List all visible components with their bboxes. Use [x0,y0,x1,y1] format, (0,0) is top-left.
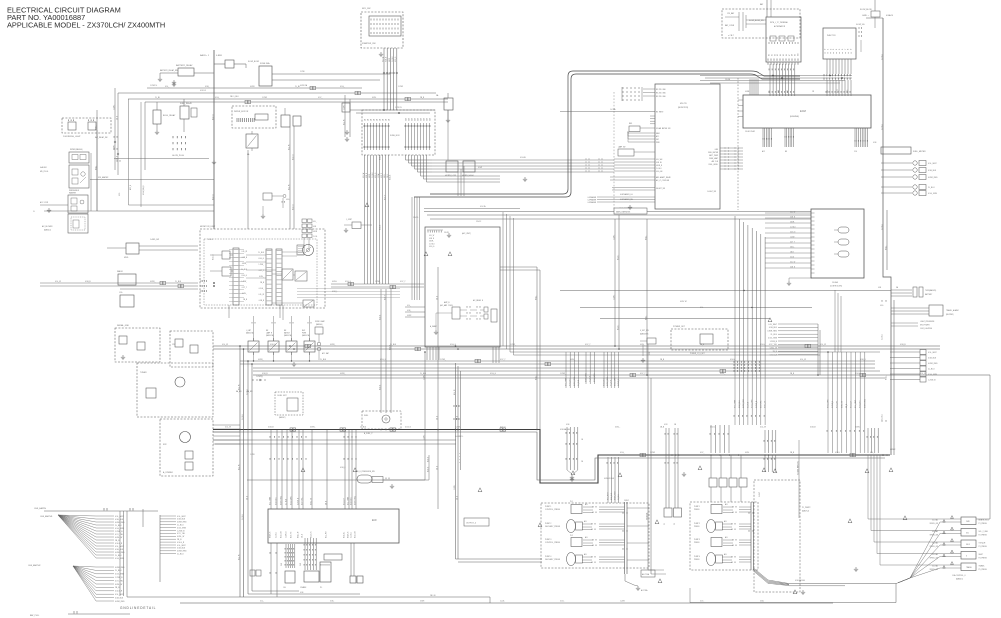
bus y361 [240,360,875,362]
svg-text:LIGHT_PRESSURE: LIGHT_PRESSURE [920,321,934,323]
svg-text:6-SPEAKER_LH: 6-SPEAKER_LH [620,193,633,196]
svg-text:2L_BLU: 2L_BLU [656,168,661,170]
svg-text:0.5G_GR: 0.5G_GR [355,530,357,538]
svg-text:0.5L_W: 0.5L_W [820,344,826,346]
radio box 2 [120,295,134,307]
wire riser x345 [344,95,346,137]
svg-text:2E: 2E [581,461,583,463]
comp x345 [342,103,350,112]
svg-text:0.5Y_: 0.5Y_ [700,601,704,603]
pump2 vertical feed x799 [798,440,800,518]
svg-text:B7: B7 [789,54,791,56]
svg-text:0.5L_WHT: 0.5L_WHT [735,400,737,408]
wire riser x294 [293,126,295,229]
svg-text:PL: PL [320,587,322,589]
svg-text:0.85B: 0.85B [745,91,749,93]
injector connector bar [824,74,850,76]
svg-text:0.85R_RED: 0.85R_RED [767,331,777,333]
svg-text:1.25W_B: 1.25W_B [115,531,123,533]
svg-text:HORN_LOW: HORN_LOW [445,175,456,177]
svg-text:RX-TXD_GND: RX-TXD_GND [656,96,667,98]
svg-text:SELECT_SW: SELECT_SW [656,188,666,190]
svg-text:SW_POWER: SW_POWER [920,325,930,327]
ECM pin cluster B [785,128,794,147]
svg-text:2L_BLU: 2L_BLU [590,375,592,382]
battery relay K1 [178,68,194,76]
ECF top pin verticals [270,430,272,509]
svg-text:PUMP 1: PUMP 1 [694,506,700,508]
svg-text:CHS_EARTH: CHS_EARTH [34,507,47,510]
svg-text:0.5B_BLK: 0.5B_BLK [115,519,124,521]
label box on wire [614,208,647,214]
fusible link F0 [225,60,234,68]
svg-text:RX-TXD_GND: RX-TXD_GND [656,92,667,94]
relay RL2 fuel [180,106,189,119]
svg-text:1.25W_: 1.25W_ [455,427,461,429]
svg-text:0.5G_G: 0.5G_G [375,172,377,178]
bottom rail y597 [127,596,490,598]
ECF top ticks [270,436,306,438]
svg-text:CHS_EARTH2: CHS_EARTH2 [28,564,40,567]
ICX box [425,227,500,347]
svg-text:0.5LG_R: 0.5LG_R [344,497,346,505]
svg-text:0 BACK: 0 BACK [886,14,894,17]
svg-text:SLOW_BLOW: SLOW_BLOW [860,9,872,11]
svg-text:0.5G_G: 0.5G_G [292,204,294,210]
svg-text:2L_B: 2L_B [837,89,839,93]
svg-text:0.85L_: 0.85L_ [615,427,620,429]
triangle markers scattered [424,252,428,256]
svg-text:MONITOR_UNIT: MONITOR_UNIT [200,226,216,228]
svg-text:1.25W_B: 1.25W_B [286,531,288,538]
ICX left stubs [405,306,425,308]
fuse 5A mid [444,98,453,110]
svg-text:FUEL_LEVEL: FUEL_LEVEL [709,164,719,166]
svg-text:2L_BLU: 2L_BLU [177,525,184,527]
bus y375 [253,374,990,376]
wire riser x290 [289,127,291,229]
svg-text:0.85L_W: 0.85L_W [770,348,777,350]
svg-text:CN-1D: CN-1D [413,217,419,219]
svg-text:0.5B_B: 0.5B_B [900,344,906,346]
wire left drop x115 [114,88,116,170]
rail link x490 [489,597,491,603]
svg-text:0.85R_RED: 0.85R_RED [928,363,938,365]
ICX bottom bundle right [493,347,499,363]
svg-text:0.5B_B: 0.5B_B [389,175,391,180]
svg-text:0.5L_W: 0.5L_W [382,56,384,62]
svg-text:BLDG_RELAY: BLDG_RELAY [163,114,176,117]
ECF box [268,509,399,543]
monitor inner dashed box [204,239,317,305]
relay RL1 bldg [153,110,161,124]
monitor drops below [228,305,230,318]
connector hatch cn-h [586,158,589,160]
svg-text:0.5L_W: 0.5L_W [790,211,796,213]
pump2 P4 [707,553,716,566]
svg-text:SOL: SOL [966,533,969,535]
svg-text:0.5Y_Y: 0.5Y_Y [384,294,386,300]
svg-text:0.85R_: 0.85R_ [369,173,371,178]
svg-text:0.5B_BLK: 0.5B_BLK [570,378,572,386]
svg-text:0.5B_B: 0.5B_B [379,385,381,390]
svg-text:0.5B_BLK: 0.5B_BLK [611,492,613,500]
ICX right exit y267 [500,266,537,268]
serial dashed box 2 [170,331,213,367]
svg-text:0.5B_BLK: 0.5B_BLK [276,497,278,505]
svg-text:FUSE 30A: FUSE 30A [260,62,270,65]
svg-text:= CB-T: = CB-T [728,35,735,37]
svg-text:2L_BLU: 2L_BLU [747,401,749,408]
starter inner wires [738,12,740,31]
tiny box pair bottom [250,570,255,576]
alternator drop bundle [770,64,795,96]
svg-text:0.5B_B: 0.5B_B [790,216,795,218]
svg-text:2L_BLU: 2L_BLU [611,379,613,386]
key unit box [811,209,864,278]
svg-text:1.25W_: 1.25W_ [560,373,566,375]
trunk x615 [614,219,616,346]
starter switch dashed box [361,12,403,48]
stereo dashed box 1 [137,363,213,417]
svg-text:S: S [966,556,967,558]
svg-text:0.5LG_: 0.5LG_ [710,427,716,429]
svg-text:0.85L_: 0.85L_ [95,125,97,130]
svg-text:0.85L_: 0.85L_ [645,235,647,240]
trunk x240 [239,346,241,597]
pump2 P2 [707,520,716,533]
svg-text:RES: RES [629,123,632,125]
bottom rail y603 [180,602,833,604]
bus y355 ext [514,354,821,356]
svg-text:A_FUEL_P: A_FUEL_P [364,432,373,435]
svg-text:1.25W_: 1.25W_ [613,234,615,240]
svg-text:0.85R_: 0.85R_ [310,427,316,429]
svg-text:0.5L_W: 0.5L_W [363,172,365,178]
right rows upper [891,289,912,291]
svg-text:ECF: ECF [372,519,377,522]
svg-text:STARTER_SW: STARTER_SW [362,42,376,45]
svg-text:0.85R_R: 0.85R_R [270,531,272,538]
MC controller box [655,84,720,209]
svg-text:0.85L_W: 0.85L_W [298,531,300,538]
svg-text:0.5G_G: 0.5G_G [212,114,214,120]
svg-text:CN-1C: CN-1C [476,221,482,223]
MC left pin rows mid [614,158,655,160]
pump1 P3 [571,538,582,547]
svg-text:0.5B_BLK: 0.5B_BLK [115,549,124,551]
svg-text:0.5LG: 0.5LG [208,239,213,241]
svg-text:B8: B8 [792,54,794,56]
bottom rail y594 [248,593,360,595]
svg-text:0.5LG_: 0.5LG_ [259,288,264,290]
svg-text:0.5L_W: 0.5L_W [238,554,240,560]
svg-text:0.85L-R 8CA: 0.85L-R 8CA [604,477,615,480]
ground symbols scattered [570,477,574,482]
svg-text:B5: B5 [783,54,785,56]
MC right rows to ECM [720,147,743,149]
wire stack riser x91 [90,153,92,211]
svg-text:0.85L_: 0.85L_ [95,165,97,170]
wire top-left link [97,210,214,212]
svg-text:0.5B_B: 0.5B_B [242,257,247,259]
injector drop bundle upper [827,59,851,74]
svg-text:WFSOL_6W: WFSOL_6W [930,523,939,525]
line y158 [114,158,209,160]
svg-text:0.85R: 0.85R [250,86,255,88]
svg-text:TORQUE: TORQUE [979,543,986,545]
ECF cluster 3 [320,562,331,582]
svg-text:0.5LG_: 0.5LG_ [790,256,795,258]
svg-text:0.5Y_Y: 0.5Y_Y [381,173,383,178]
starter switch drop bundle [384,48,397,110]
svg-text:CN2: CN2 [300,563,302,566]
svg-text:2B_B: 2B_B [116,156,118,160]
wire left drop x118 [117,93,119,175]
svg-text:0.5Y_YEL: 0.5Y_YEL [115,580,123,582]
svg-text:2B_B: 2B_B [456,496,458,500]
wire bus y99 [128,98,448,100]
svg-text:B8: B8 [785,151,787,153]
svg-text:BAT_PULL: BAT_PULL [30,614,39,617]
stub cluster x765 [765,430,776,453]
key feed verticals [734,216,736,377]
wire fuse to right 2 [272,79,380,81]
svg-text:1-LIGHT_SW: 1-LIGHT_SW [707,191,717,193]
svg-text:2L_BLU: 2L_BLU [771,334,778,336]
svg-text:(CONTROLLER): (CONTROLLER) [830,286,842,288]
wire riser x141 [140,102,142,207]
svg-text:0.5Y_Y: 0.5Y_Y [500,359,506,361]
svg-text:0.85L_W: 0.85L_W [177,536,184,538]
trunk bundle x455 [455,363,457,559]
trunk x455 ticks [454,405,459,407]
svg-text:0.85R_: 0.85R_ [340,373,346,375]
ECM box [743,95,871,128]
svg-text:CONTROL_PRESS: CONTROL_PRESS [545,542,561,544]
svg-text:0.5L_W: 0.5L_W [790,261,796,263]
svg-text:0.5B: 0.5B [778,90,780,93]
trunk x438 [437,267,439,509]
svg-text:1.25W_B: 1.25W_B [832,400,834,408]
stack tick marks [114,136,117,138]
svg-text:POWER_LT_S_SKT: POWER_LT_S_SKT [690,353,705,355]
power socket dashed box [671,329,728,350]
connector column x566 [567,427,578,470]
svg-text:2L_BLU: 2L_BLU [881,223,883,230]
title block [7,6,165,30]
svg-text:0.85R_RED: 0.85R_RED [864,398,866,408]
MC left edge pin stubs extra [650,115,655,117]
fuse panel dashed box [362,110,435,155]
svg-text:B1: B1 [771,54,773,56]
svg-text:0.5LG_R: 0.5LG_R [115,543,123,545]
stub cluster x868 [868,428,878,453]
svg-text:0.5G_GRN: 0.5G_GRN [594,373,596,382]
monitor relay 2 [295,271,307,281]
svg-text:F1: F1 [664,523,666,525]
svg-text:0.5R L5: 0.5R L5 [200,90,206,92]
svg-text:BACK+ 1: BACK+ 1 [200,54,210,57]
svg-text:GND +: GND + [862,15,869,17]
MC row y112 [560,111,655,113]
svg-text:0.85Y 4C: 0.85Y 4C [680,301,688,303]
svg-text:0.85R_: 0.85R_ [150,281,156,283]
svg-text:L_GMT: L_GMT [246,330,251,332]
pump1 P2 [567,520,576,533]
heater line [90,179,214,181]
horn high [463,161,475,172]
svg-text:2L_BL: 2L_BL [295,86,300,88]
svg-text:ECM: ECM [800,109,806,113]
svg-text:0.5L_W: 0.5L_W [55,281,61,283]
svg-text:0.5L_W: 0.5L_W [454,389,456,395]
svg-text:0.85L_: 0.85L_ [384,173,386,178]
svg-text:0.5Y_Y: 0.5Y_Y [400,281,406,283]
svg-text:KEY_SW: KEY_SW [362,8,370,10]
svg-text:0.5G_GRN: 0.5G_GRN [928,193,938,195]
svg-text:SLOW_BLOW_SW: SLOW_BLOW_SW [749,20,764,22]
svg-text:WFSOL_6W: WFSOL_6W [930,535,939,537]
svg-text:0.5L_: 0.5L_ [260,601,264,603]
MC res comp [629,126,640,132]
svg-text:0.5LG_: 0.5LG_ [760,344,766,346]
svg-text:4-0.85B 1L: 4-0.85B 1L [455,436,463,438]
starter switch contact grid [369,16,401,36]
meter rows right [881,162,912,164]
svg-text:0.5W: 0.5W [478,167,482,169]
pump2 rows to collector [739,506,751,508]
svg-text:(A/C_UNIT): (A/C_UNIT) [462,232,471,235]
svg-text:2L_BLU: 2L_BLU [881,123,883,130]
main power bus zigzag [213,430,890,484]
svg-text:C16: C16 [854,151,857,153]
svg-text:2L_BLU: 2L_BLU [429,243,434,245]
svg-text:2L_BLU: 2L_BLU [177,554,184,556]
svg-text:CN1: CN1 [281,563,283,566]
svg-text:1.25W_: 1.25W_ [790,236,795,238]
relay RL4 [293,116,301,126]
svg-text:PL2: PL2 [570,535,573,537]
svg-text:P2_PRESS: P2_PRESS [979,535,987,537]
svg-text:FUEL_METER: FUEL_METER [913,151,926,153]
svg-text:1.25W: 1.25W [262,97,267,99]
svg-text:2L_BLU: 2L_BLU [372,173,374,178]
svg-text:0.5L_WHT: 0.5L_WHT [177,516,186,518]
main gnd vertical 2 [886,210,888,270]
bus y364 [240,363,875,365]
svg-text:2L_BLU: 2L_BLU [175,281,182,283]
svg-text:0.5L_W: 0.5L_W [343,119,345,125]
svg-text:0.5G_GRN: 0.5G_GRN [752,399,754,408]
svg-text:0.5B 8A 8CA: 0.5B 8A 8CA [795,579,806,582]
monitor gauge [303,245,314,256]
svg-text:0.5LG_: 0.5LG_ [617,255,619,260]
gnd detail fan 1 [58,515,96,516]
svg-text:CRANK: CRANK [300,586,307,589]
svg-text:0.85: 0.85 [827,90,829,93]
relay row R10-R13 [248,341,259,352]
svg-text:0.5L_WHT: 0.5L_WHT [115,516,124,518]
x448 drop to horn rows [447,110,449,160]
svg-text:0.5L_W: 0.5L_W [920,373,926,375]
monitor connector bar 1 [233,248,239,305]
svg-text:0.85R_RED: 0.85R_RED [177,551,187,553]
svg-text:0.5L_W: 0.5L_W [222,344,228,346]
svg-text:B4: B4 [780,54,782,56]
svg-text:PUMP 2: PUMP 2 [545,523,551,525]
cab harness boundary outer [414,74,800,197]
svg-text:OIL: OIL [283,587,286,589]
svg-text:0.5B_: 0.5B_ [205,86,209,88]
svg-text:0.85R_RED: 0.85R_RED [355,495,357,505]
svg-text:0.5B_B: 0.5B_B [379,155,381,160]
svg-text:0.85R_: 0.85R_ [258,359,264,361]
ECM pin cluster C [855,128,868,147]
alternator box [766,17,801,62]
svg-text:B6: B6 [786,54,788,56]
svg-text:BAT_CONN: BAT_CONN [725,24,735,27]
svg-text:I9: I9 [851,49,853,50]
svg-text:0.5L_: 0.5L_ [870,452,874,454]
bus y349 [213,348,940,350]
svg-text:FUEL_METER: FUEL_METER [708,152,719,154]
svg-text:0.5B: 0.5B [878,287,881,289]
svg-text:CHS_U_PRESSURE_SW: CHS_U_PRESSURE_SW [355,471,375,473]
svg-text:0.5Y_YEL: 0.5Y_YEL [302,497,304,505]
key box gnd [789,277,812,279]
bus y368 [253,367,875,369]
svg-text:1.25W_: 1.25W_ [454,484,456,490]
4wd connector [126,243,139,254]
svg-text:1.25R 2L: 1.25R 2L [395,107,402,109]
svg-text:RX-TXD_GND: RX-TXD_GND [656,89,667,91]
relay RL5 [246,134,258,148]
svg-text:0.5L_WHT: 0.5L_WHT [608,492,610,500]
engine boundary dashed [737,78,739,210]
svg-text:0.5B_B: 0.5B_B [389,345,391,350]
svg-text:0.5G_G: 0.5G_G [429,246,435,248]
svg-text:2L_BLU: 2L_BLU [242,513,244,520]
svg-text:CIG: CIG [119,292,123,294]
svg-text:2B_B: 2B_B [116,116,118,120]
svg-text:FUEL_RELAY: FUEL_RELAY [180,102,193,105]
fuse elements right group [405,123,431,150]
svg-text:KEY: KEY [656,139,659,141]
svg-text:RX_INPUT: RX_INPUT [656,112,664,114]
left dashed box lamps [62,118,111,133]
main gnd vertical 1 [883,18,891,455]
svg-text:0.5L_: 0.5L_ [407,305,411,307]
svg-text:FUSE_BOX: FUSE_BOX [390,135,400,137]
ECF connector small [324,554,342,560]
svg-text:TUNER: TUNER [140,372,147,374]
svg-text:1.25W_B: 1.25W_B [770,341,778,343]
svg-text:0.85L: 0.85L [760,601,764,603]
junction dots on buses [239,345,241,347]
svg-text:0.5B_B: 0.5B_B [268,427,274,429]
rows drop x835 [834,290,836,352]
svg-text:0.85L_: 0.85L_ [570,359,575,361]
svg-text:SOL_2_GND: SOL_2_GND [979,531,989,533]
bus y352 ext [510,351,880,353]
svg-text:0.5Y_Y: 0.5Y_Y [790,241,795,243]
svg-text:0.5L_W: 0.5L_W [800,359,806,361]
svg-text:0.5B_: 0.5B_ [330,601,334,603]
wire stack riser x97 [96,130,98,211]
svg-text:I4: I4 [836,49,838,50]
svg-text:2L_BLU: 2L_BLU [360,427,367,429]
